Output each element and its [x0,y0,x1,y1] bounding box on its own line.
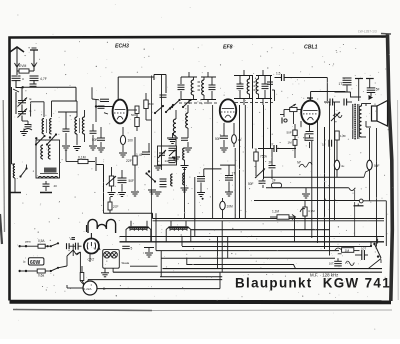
wire L2 L3 tops [31,101,77,117]
IF2 bottom stubs [235,90,275,105]
rail x324 [324,127,326,249]
cap 50F cathode [92,127,105,147]
osc coil bottom 1 [148,167,195,221]
label EF9 [223,45,233,51]
CBL1 cathode caps [305,124,314,148]
wire C2 down [30,80,37,88]
band switch S1a [9,165,28,193]
det rail 2 [213,76,271,219]
osc coil bottom 2 [183,173,185,185]
pickup switch [368,239,381,269]
coil L6 [75,101,80,145]
wire plate top [118,75,154,81]
mains plug top [19,240,32,248]
svg-text:1,5: 1,5 [276,72,281,76]
mains row 2 [19,250,74,278]
switch S1b [35,135,46,146]
switch left bottom [11,87,13,164]
winding B stubs [166,227,191,242]
pilot lamp 0.22A [83,281,106,295]
resistor heater [80,266,84,285]
svg-text:1,8F: 1,8F [340,134,346,138]
svg-text:5: 5 [131,247,133,251]
osc coil La [173,110,176,136]
mains fuse 0.5A [27,239,51,248]
tube CBL1 [301,101,319,125]
wire C1 down [16,80,24,89]
CBL1 internal bias [300,121,302,127]
det rail 4 [269,60,272,149]
EF9 grid wire [208,99,220,111]
label ECH3 [115,44,129,50]
bus y219 [153,218,385,220]
cap 5000 [367,88,380,97]
svg-text:1,1M: 1,1M [272,210,279,214]
ground 22F [131,192,139,196]
svg-text:50F: 50F [287,131,292,135]
wire left stub [96,157,104,201]
terminal circle [354,199,387,246]
earth terminal [30,48,38,68]
wire loop right [349,188,356,236]
title Blaupunkt KGW 741 [235,276,391,291]
coil L2 [42,119,46,135]
svg-text:27F: 27F [113,205,119,209]
switch S2c [171,99,192,108]
rail x329 [329,102,331,256]
cap 50F 2 [118,170,135,192]
cursive Nf text [297,161,312,168]
vert 247b [246,105,248,219]
oval 10M [220,198,233,219]
CY2 internals [87,242,95,250]
wire psu bottom [90,254,102,262]
wire antenna to resistor [17,68,34,75]
screen cap stack [339,78,352,92]
bones box 1.1M [270,210,296,220]
svg-text:0,6a: 0,6a [38,274,44,278]
svg-text:EVM: EVM [19,64,27,68]
svg-text:10T: 10T [361,246,366,250]
svg-text:1M: 1M [288,141,293,145]
svg-text:b: b [24,260,26,264]
cap det left [197,169,221,200]
IF2 tank 2 [256,70,273,99]
wire EF9 plate [227,94,229,99]
wire 22F [134,137,136,191]
volume pot [255,168,265,178]
svg-text:Skala: Skala [121,261,129,265]
rail x312 [311,141,313,238]
T cap bottom [144,248,154,258]
coil L1 antenna [12,164,16,178]
osc coil link [127,110,151,120]
speaker wires [362,104,372,138]
electrolytic EF9 [232,123,242,147]
vert 217 [218,236,223,289]
wires bottom right frame [370,128,378,247]
variable capacitor C4 [18,109,32,122]
svg-text:5F: 5F [376,88,380,92]
osc switch S2a [152,105,165,114]
bus y264 [113,258,382,277]
variable capacitor C3 [18,87,32,109]
svg-text:CY2: CY2 [88,257,95,261]
cap 1.4F [136,143,150,157]
switch S1c [46,133,57,145]
osc coil Lb [186,105,188,128]
resistor 800 top [144,93,154,115]
ground padder [154,165,162,170]
coil L7 [82,110,84,142]
dial lamp 2 [101,252,117,277]
IF1 tank 2 [201,72,216,100]
cap 50/5 [122,246,132,250]
wire to CBL1 grid [311,92,346,101]
border frame [10,34,399,303]
arrow psu [369,95,374,100]
svg-text:u: u [22,77,24,81]
bus y246 [182,246,371,248]
winding A stubs [126,227,151,242]
osc mix switch [145,165,156,183]
cap 2F det [269,149,276,180]
ground EF9 cath [220,148,228,152]
svg-text:100: 100 [128,139,134,143]
padder trimmer [158,150,166,158]
wire af bus1 [263,170,370,177]
coil left bottom [40,181,57,193]
mains winding block B [169,226,189,231]
cap C7 [90,124,97,145]
T cap 2 [366,79,374,88]
wire 27F path [104,197,248,219]
bus y241 [120,241,385,243]
bus y236 [120,236,385,238]
svg-text:1T: 1T [232,172,236,176]
filter box [36,140,60,178]
osc cap Ca [169,136,177,156]
wire top link [58,104,77,112]
lamp wires [67,280,222,289]
left bottom L [14,164,16,166]
wire mid left [66,150,70,162]
svg-text:22F: 22F [126,159,132,163]
box scallop bottom [38,177,58,179]
svg-text:40: 40 [54,184,58,188]
coil L4 [41,145,43,159]
tube EF9 [220,99,236,121]
ground osc a [172,157,180,161]
gnd T mid [167,133,178,144]
svg-text:0,1M: 0,1M [78,156,86,160]
svg-text:0,22A: 0,22A [84,287,93,291]
coil L3 [50,119,52,135]
pickup cap [354,246,368,260]
grid cap left bars [92,87,113,101]
svg-text:50F: 50F [248,182,254,186]
svg-text:CBL1: CBL1 [304,45,318,51]
fuse Si [13,80,19,114]
output transformer secondary [358,104,362,139]
padder cap 14F [165,158,176,163]
wire bottom bus [122,253,144,255]
padder box [158,146,177,165]
tube ECH3 [113,100,128,124]
padder varr2 [169,150,176,157]
resistor 27F [108,202,119,210]
trimmer C2 [30,76,47,81]
wire top to osc [154,75,166,94]
long vertical rail B [161,75,163,170]
speaker [372,101,388,127]
cap 50F det [248,179,266,188]
svg-text:ECH3: ECH3 [115,44,129,50]
svg-text:50F: 50F [215,137,221,141]
svg-text:50F: 50F [129,179,135,183]
mains switch [50,242,59,247]
ground pot [108,193,127,197]
tone arrow [331,112,342,121]
trimmer C1 [12,76,25,81]
svg-text:para: para [25,240,31,244]
IF2 core dashes [254,82,256,90]
cap pair2 [344,99,352,106]
resistor 0.1M [70,156,95,164]
coil right of padder [181,148,189,170]
transformer top rail [131,221,186,227]
bus y258 [161,257,335,259]
osc cap Cb [181,128,188,147]
bus y221 [153,220,385,222]
cap det mid [258,143,296,153]
vert 156 [156,213,161,277]
filament winding loops [87,219,116,233]
cap 77 pair [324,99,340,106]
label 60W [24,258,44,266]
vert 182 [181,236,183,246]
label CBL1 [304,45,318,51]
wire pickup [329,258,355,266]
vert 227 [227,236,229,258]
wire af bus2 [266,186,349,189]
resistor 22F [126,127,137,165]
svg-text:1T: 1T [339,82,343,86]
det rail 3 [263,105,265,179]
coupling cap top [275,72,328,102]
mains cap in [58,243,82,250]
resistor 1k grid [280,104,301,124]
dial lamps box [103,250,130,269]
psu top wire [335,92,362,97]
svg-text:4,7M: 4,7M [308,209,315,213]
svg-text:750k: 750k [260,155,267,159]
cap det mid2 [220,165,235,196]
antenna [10,47,24,68]
rectifier CY2 [84,233,99,261]
ground C5 [20,132,28,136]
bus y254 [350,250,360,252]
ground osc b [184,148,192,152]
wires CBL1 down rails [311,127,313,219]
svg-text:LW-L287-1/3: LW-L287-1/3 [358,30,377,34]
IF1 bottom stubs [179,100,218,105]
CBL1 top tick [307,98,313,100]
svg-text:4,7F: 4,7F [40,77,47,81]
ground electrolytic [119,153,127,157]
voltage sel [70,237,80,281]
wire left col [11,87,13,164]
osc switch S2b [165,104,174,113]
svg-text:Blaupunkt KGW 741: Blaupunkt KGW 741 [235,276,391,291]
wire CY2 to lamps [99,246,103,251]
T cap 1 [355,79,363,102]
svg-text:2T: 2T [270,143,274,147]
resistor EVM [19,64,29,73]
wire input bus [16,87,76,101]
svg-text:1M: 1M [345,249,350,253]
ground L6 [73,147,81,151]
electrolytic 50F out [367,128,380,201]
bus y250 [156,250,339,252]
svg-text:M.F. · 128 kHz: M.F. · 128 kHz [310,273,338,278]
ground C7 [89,146,97,150]
grid stopper input [95,100,113,122]
resistor 50F col [287,112,298,140]
wire af bus3 [254,178,359,201]
cap C6 [63,112,70,145]
iron core slug [40,168,58,174]
resistor 750k [254,149,268,169]
left vert x96 [95,122,97,157]
note MF frequency [310,273,338,278]
IF1 core dashes [198,82,201,90]
resistor 4.7M [191,201,330,242]
osc caps bottom [160,179,167,187]
IF2 tank 1 [234,70,253,99]
pickup network box [335,248,354,254]
cap to ground mid [168,136,177,138]
svg-text:60W: 60W [30,260,41,266]
cathode resistor 500 [127,106,139,131]
mains winding block A [129,226,149,231]
cap 1F right [322,140,332,147]
svg-text:0,5A: 0,5A [38,239,45,243]
resistor 1M col [288,140,298,158]
electrolytic 50F out2 [334,140,344,177]
output transformer primary [353,104,356,140]
cap 50F EF9 [215,123,228,147]
faint scan text top right [358,30,377,34]
resistor 1.8F [335,131,346,140]
svg-text:4u: 4u [341,164,345,168]
rail x334 [334,102,336,220]
svg-text:10T: 10T [329,262,334,266]
vert 198 [195,221,222,255]
trimmer C5 [22,121,32,131]
svg-text:50F: 50F [92,138,98,142]
scan artifact line below frame [0,100,392,311]
rail x317 [317,120,319,243]
wire lamp up [73,250,84,285]
pot with arrow [106,167,116,192]
svg-text:1F: 1F [322,143,326,147]
ECH3 top cap [117,77,119,100]
electrolytic 100 [120,127,133,152]
long vertical rail A [151,76,153,243]
ground af [302,188,310,198]
cap grid [90,106,105,109]
dial lamp 1 [104,252,110,258]
ground C6 [62,146,70,150]
vertical rails detector [246,105,248,219]
svg-text:2F: 2F [272,179,276,183]
IF1 tank 1 [178,72,198,100]
ground cathode [97,148,105,152]
svg-text:10M: 10M [227,205,234,209]
coil L5 [48,145,50,159]
svg-text:E: E [30,97,32,101]
svg-text:14F: 14F [165,159,170,163]
cap 2F ak [272,179,282,188]
svg-text:EF8: EF8 [223,45,233,51]
cap osc top [160,95,167,97]
